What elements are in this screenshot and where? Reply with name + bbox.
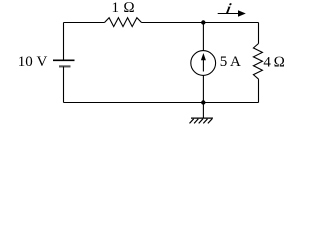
svg-text:1: 1 — [112, 0, 120, 16]
current source I1 arrow — [201, 53, 206, 72]
current label i — [225, 1, 234, 18]
svg-text:10: 10 — [18, 54, 33, 70]
current source I1 circle — [191, 51, 216, 76]
wire middle branch bottom — [202, 75, 204, 102]
svg-text:Ω: Ω — [274, 55, 286, 71]
resistor R2 4 ohm zigzag — [253, 44, 262, 80]
label 4 ohm — [263, 55, 285, 71]
wire middle branch top — [202, 23, 204, 51]
node junction dot bottom — [201, 100, 205, 104]
voltage source V1 short plate — [59, 65, 71, 67]
wire top-right segment — [142, 22, 259, 24]
wire left vertical top — [63, 23, 65, 60]
svg-text:V: V — [37, 54, 48, 70]
svg-text:Ω: Ω — [123, 0, 135, 16]
label 5 A — [220, 54, 241, 70]
ground — [190, 118, 214, 123]
node junction dot top — [201, 20, 205, 24]
voltage source V1 long plate — [53, 59, 75, 61]
svg-text:4: 4 — [263, 55, 271, 71]
wire left vertical bottom — [63, 67, 65, 103]
wire bottom — [64, 102, 259, 104]
svg-text:A: A — [230, 54, 241, 70]
resistor R1 1 ohm zigzag — [105, 18, 142, 27]
label 1 ohm — [112, 0, 135, 16]
current direction arrow — [218, 10, 246, 16]
wire right vertical bottom — [258, 79, 260, 102]
ground stub wire — [202, 103, 204, 119]
wire right vertical top — [258, 23, 260, 44]
wire top-left segment — [64, 22, 105, 24]
label 10 V — [18, 54, 48, 70]
svg-text:5: 5 — [220, 54, 228, 70]
